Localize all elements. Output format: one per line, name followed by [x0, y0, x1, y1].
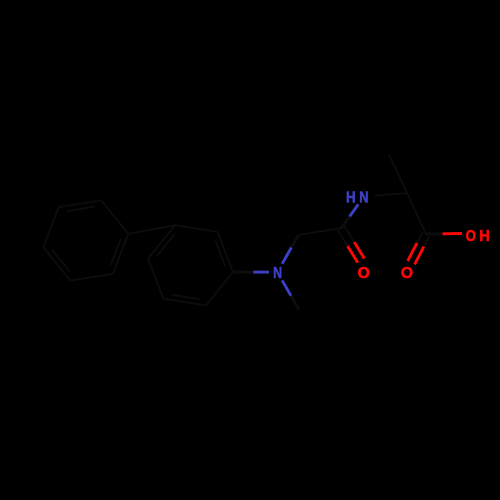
bond N2-CO dark half [341, 217, 349, 229]
double-bond inner line ring B edge 1 [172, 295, 200, 299]
double bond C=O acid red line b [408, 243, 417, 261]
bond ring B edge 5 [218, 232, 233, 272]
bond N2-CO blue half [350, 204, 359, 216]
bond ring A edge 2 [43, 247, 70, 280]
double-bond inner line ring A edge 4 [67, 207, 95, 211]
double-bond inner line ring B edge 5 [215, 241, 225, 267]
bond ring B edge 1 [163, 299, 206, 306]
double bond C=O acid dark line a [424, 236, 430, 247]
double-bond inner line ring B edge 3 [157, 234, 175, 256]
bond N1-CH2 blue half [282, 248, 291, 264]
bond CA-CC [407, 193, 426, 234]
bond N1-ringB dark half [233, 271, 253, 274]
double bond C=O amide dark line b [338, 230, 348, 246]
bond N2-CA [375, 193, 407, 196]
svg-text:H: H [479, 228, 489, 245]
double-bond inner line ring A edge 0 [111, 239, 121, 265]
double bond C=O acid red line a [415, 247, 424, 265]
bond O3-CC dark half [426, 232, 442, 235]
double bond C=O amide red line a [354, 242, 364, 259]
bond ring B edge 2 [148, 259, 163, 299]
bond CH2-CO [299, 228, 342, 235]
svg-text:O: O [401, 265, 413, 282]
bond CA-CH3 [389, 155, 407, 194]
bond ring B edge 4 [175, 225, 218, 232]
double bond C=O amide red line b [348, 246, 358, 263]
bond ringA-ringB [128, 225, 175, 234]
bond N1-CH2 dark half [291, 235, 298, 248]
bond ring A edge 0 [113, 234, 128, 274]
bond ring B edge 3 [148, 225, 175, 258]
svg-text:O: O [358, 265, 370, 282]
svg-text:N: N [273, 265, 282, 282]
bond ring A edge 5 [101, 200, 128, 233]
bond N1-CH3 blue half [282, 280, 291, 296]
bond ring A edge 3 [43, 207, 58, 247]
bond ring B edge 0 [206, 272, 233, 305]
svg-text:N: N [359, 190, 368, 207]
bond N1-ringB blue half [253, 271, 269, 274]
bond ring A edge 4 [59, 200, 101, 207]
double bond C=O amide dark line a [345, 226, 355, 242]
svg-text:H: H [346, 190, 356, 207]
bond O3-CC red half [442, 232, 462, 235]
bond N1-CH3 dark half [291, 296, 299, 310]
double bond C=O acid dark line b [417, 232, 423, 243]
double-bond inner line ring A edge 2 [52, 250, 70, 272]
bond ring A edge 1 [70, 274, 113, 281]
svg-text:O: O [466, 228, 476, 245]
